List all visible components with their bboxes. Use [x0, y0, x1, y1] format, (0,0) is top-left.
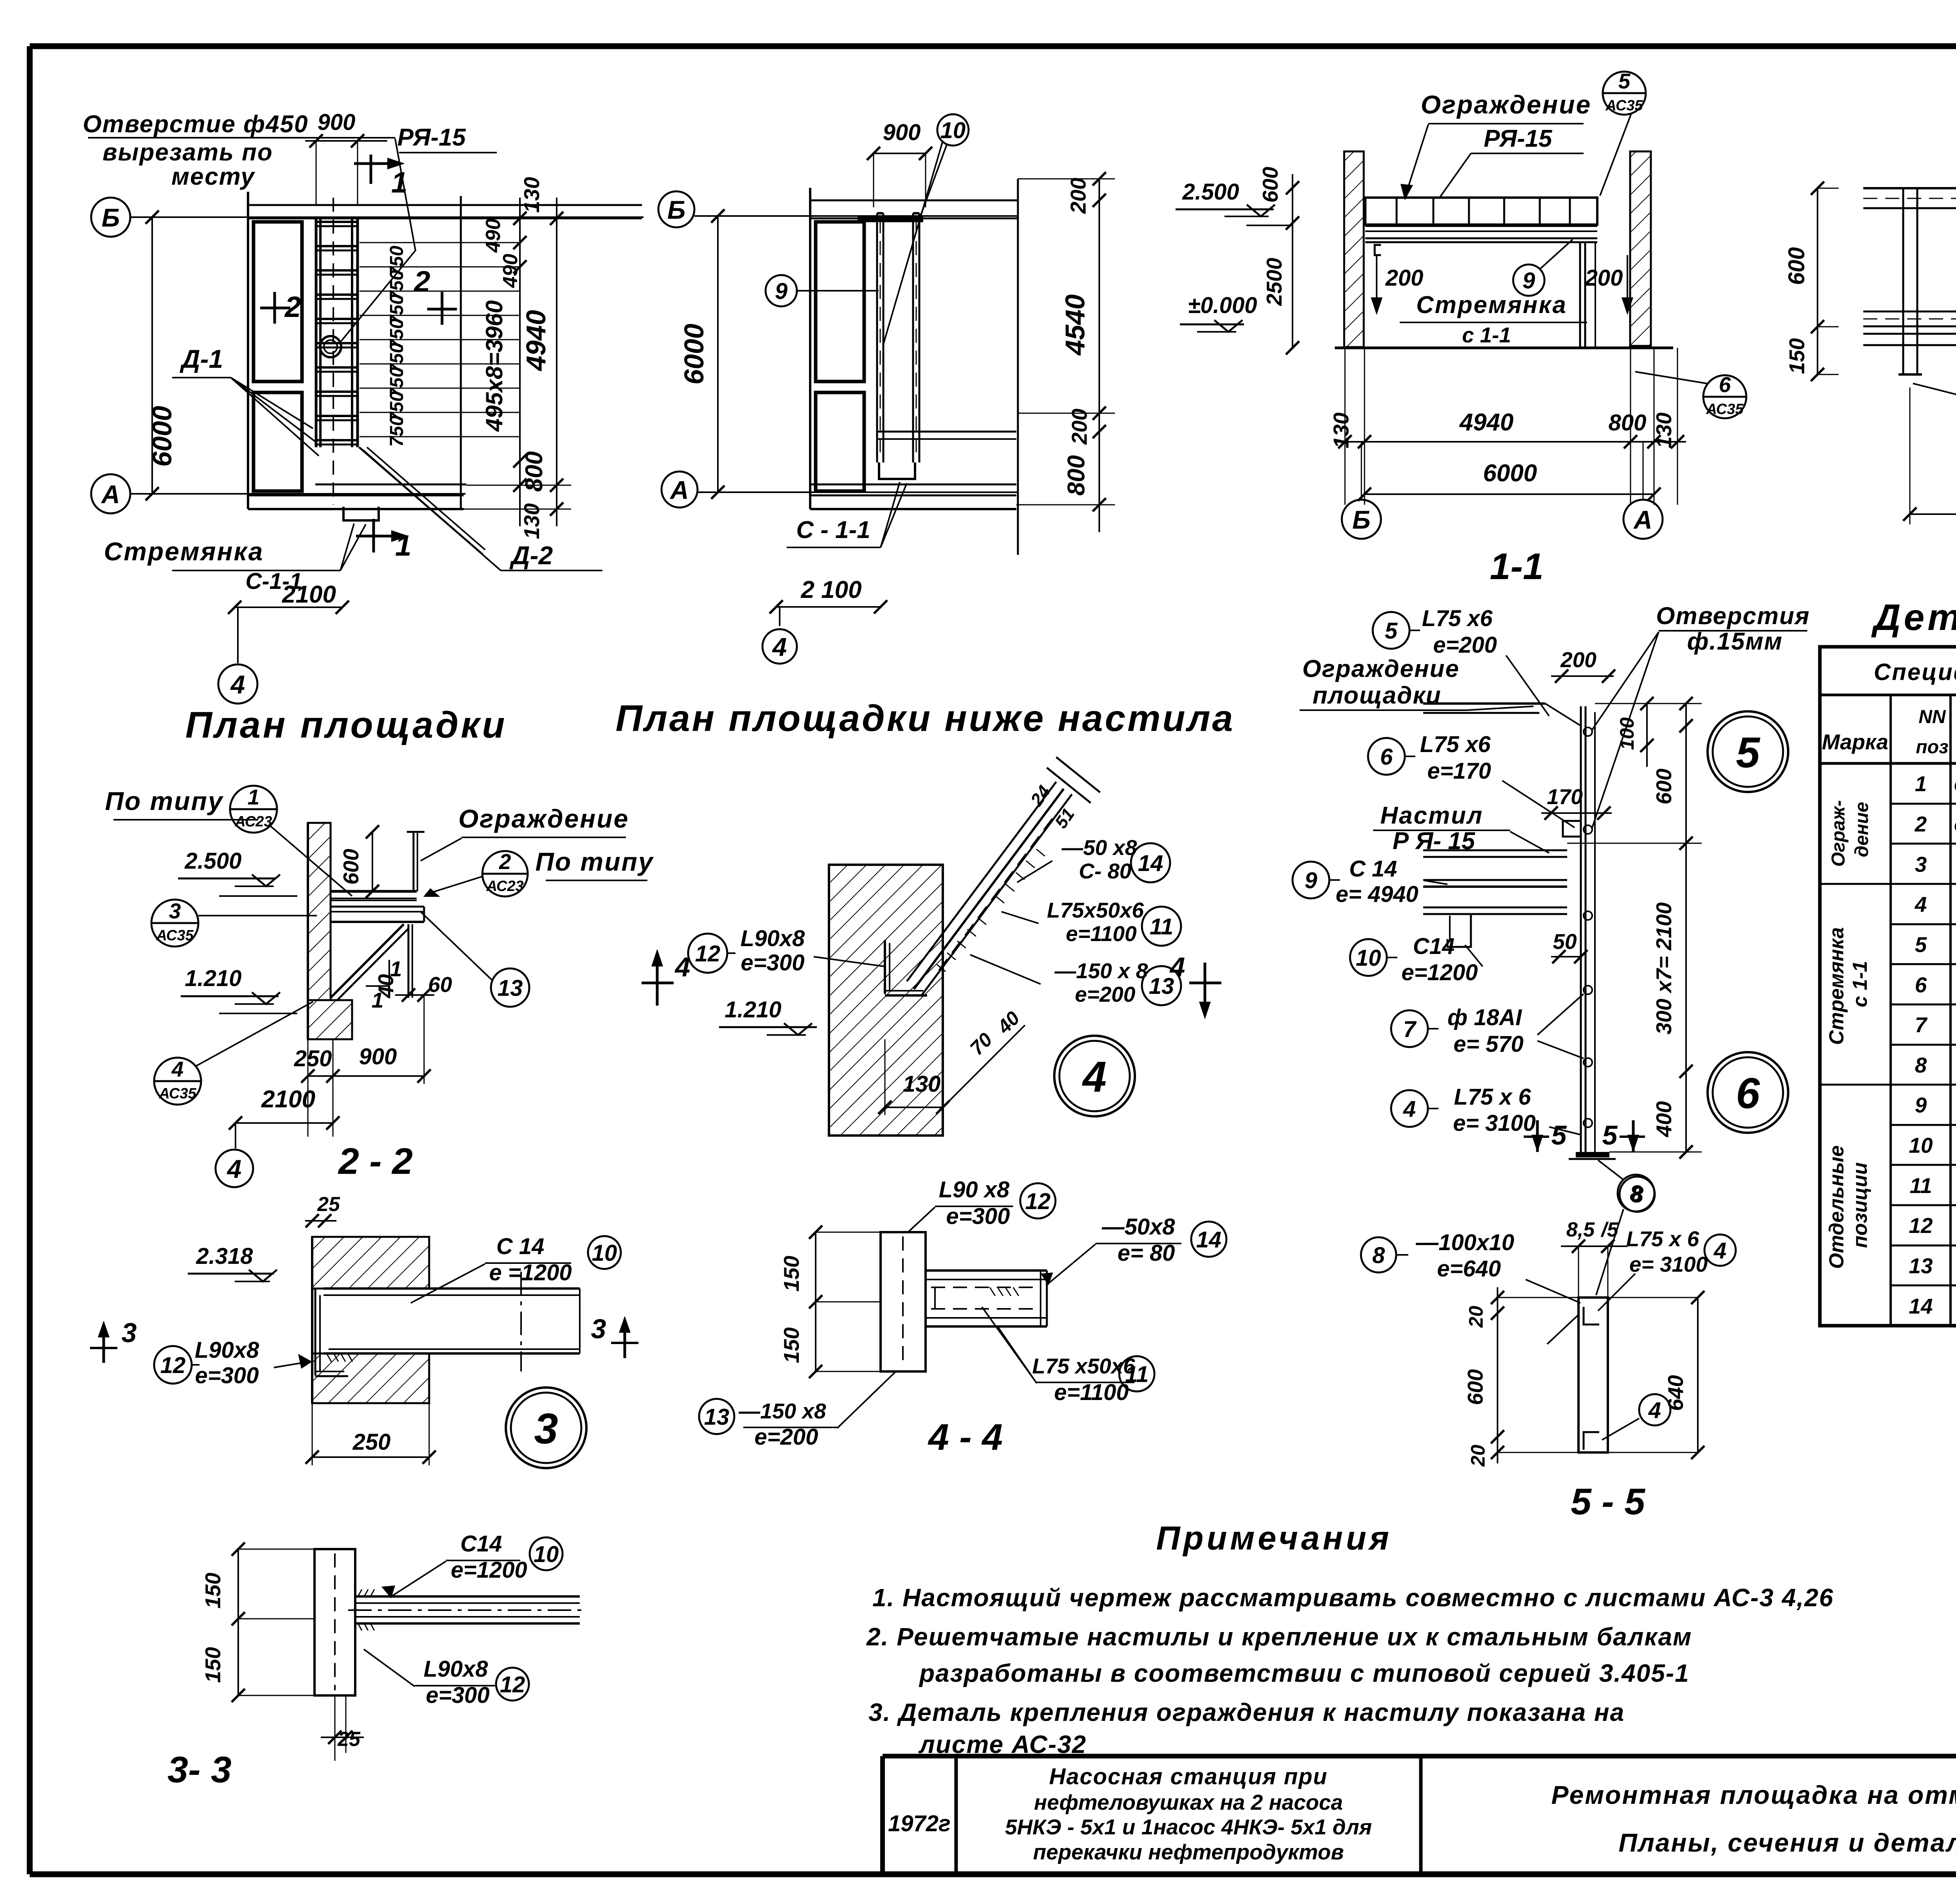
svg-text:e=170: e=170 [1427, 758, 1491, 784]
section 3-3: plate [315, 1549, 355, 1695]
stremyanka: bottom plate pos 8 [1576, 1152, 1609, 1157]
stremyanka: bracket pos 6 [1563, 821, 1581, 837]
svg-text:10: 10 [940, 118, 966, 143]
svg-text:1: 1 [248, 785, 260, 809]
svg-text:6000: 6000 [147, 406, 177, 467]
svg-text:Отверстия: Отверстия [1656, 603, 1810, 630]
svg-text:900: 900 [883, 120, 921, 145]
detail 4: weld ticks [937, 965, 946, 972]
svg-text:10: 10 [1356, 945, 1381, 971]
svg-text:e= 4940: e= 4940 [1336, 882, 1418, 907]
svg-text:5: 5 [1915, 932, 1927, 957]
svg-text:14: 14 [1196, 1227, 1222, 1253]
svg-text:2: 2 [1915, 812, 1927, 836]
plan 1: section mark 2 left [273, 292, 276, 324]
svg-text:Ограждение: Ограждение [1302, 655, 1460, 682]
svg-text:250: 250 [352, 1429, 391, 1455]
svg-text:Б: Б [1352, 505, 1371, 534]
svg-text:6000: 6000 [1483, 460, 1537, 487]
section 1-1: left dims 600 2500 [1292, 174, 1293, 348]
svg-text:8: 8 [1372, 1243, 1385, 1268]
plan 2: wall block lower [816, 392, 864, 491]
plan 2: bottom bracket [879, 463, 915, 479]
section 2-2: deck beam [331, 906, 424, 908]
section 5-5: pos 8 top circle [1620, 1177, 1655, 1212]
svg-text:12: 12 [160, 1353, 186, 1378]
section 2-2: ref circle 4 AC35 [154, 1058, 201, 1105]
svg-text:L90 х8: L90 х8 [939, 1177, 1010, 1202]
svg-text:6000: 6000 [679, 324, 709, 385]
svg-text:14: 14 [1138, 851, 1163, 876]
svg-text:3. Деталь крепления огражде: 3. Деталь крепления ограждения к настилу… [868, 1698, 1625, 1726]
plan 2: pos circle 9 [766, 275, 797, 306]
svg-text:4: 4 [1403, 1096, 1416, 1122]
svg-text:e=300: e=300 [741, 950, 805, 975]
svg-text:2.500: 2.500 [184, 848, 241, 874]
svg-text:e= 3100: e= 3100 [1453, 1110, 1535, 1136]
plan 2: wall lines [809, 188, 811, 509]
svg-text:300 х7= 2100: 300 х7= 2100 [1652, 902, 1676, 1035]
svg-text:С- 80: С- 80 [1079, 859, 1132, 883]
plan 2: pos circle 10 [937, 114, 969, 146]
svg-text:40: 40 [993, 1007, 1024, 1038]
svg-text:Примечания: Примечания [1156, 1520, 1392, 1557]
svg-text:1: 1 [391, 166, 408, 199]
svg-text:±0.000: ±0.000 [1188, 293, 1257, 318]
svg-text:4: 4 [227, 1154, 242, 1183]
svg-text:L90х8: L90х8 [741, 926, 805, 951]
svg-text:1-1: 1-1 [1490, 546, 1543, 587]
section 3: weld marks [327, 1353, 331, 1362]
svg-text:дение: дение [1852, 802, 1872, 857]
svg-text:4: 4 [1169, 952, 1185, 982]
svg-text:12: 12 [695, 941, 721, 966]
section 2-2: circle 4 axis [216, 1150, 253, 1187]
svg-text:перекачки нефтепродуктов: перекачки нефтепродуктов [1033, 1840, 1344, 1864]
svg-text:150: 150 [201, 1647, 225, 1683]
plan 1: circle 4 bottom [218, 664, 257, 704]
svg-text:ф 18АI: ф 18АI [1447, 1005, 1523, 1030]
detail 4: dashed bolt line [939, 819, 1052, 970]
plan 2: right dim line [1098, 179, 1100, 532]
section 5-5: pos 8 label [1361, 1237, 1396, 1272]
svg-text:6: 6 [1719, 373, 1731, 397]
section 1-1: pos circle 9 [1513, 265, 1544, 296]
svg-text:150: 150 [779, 1327, 804, 1363]
svg-text:200: 200 [1067, 409, 1091, 445]
svg-text:5: 5 [1602, 1120, 1618, 1150]
detail 4: diagonal end plate pos 14 [1047, 768, 1091, 803]
section 3-3: weld marks [358, 1589, 362, 1596]
stremyanka: right dims [1646, 704, 1648, 767]
svg-text:800: 800 [521, 451, 548, 491]
stremyanka: pos circle 10 label [1350, 939, 1387, 976]
svg-text:13: 13 [1909, 1254, 1933, 1278]
section 3: angle pos 12 [315, 1289, 316, 1375]
section 3: big circle 3 [506, 1388, 586, 1468]
section 1-1: ref circle 5 AC35 [1603, 72, 1646, 115]
svg-text:10: 10 [592, 1240, 617, 1266]
svg-text:3: 3 [169, 899, 181, 923]
plan 1: diagonal brace D-2 [359, 447, 483, 554]
svg-text:900: 900 [318, 110, 356, 135]
svg-text:месту: месту [171, 163, 255, 190]
svg-text:L90х8: L90х8 [195, 1337, 259, 1363]
stremyanka: deck [1423, 849, 1567, 851]
plan 1: dim 6000 [151, 217, 153, 494]
section 3: section marks 3 [102, 1334, 105, 1363]
svg-text:12: 12 [500, 1672, 525, 1697]
svg-text:1. Настоящий чертеж рассматр: 1. Настоящий чертеж рассматривать совмес… [872, 1584, 1834, 1612]
railing detail: mid rail [1863, 311, 1956, 313]
plan 1: wall axis A [91, 474, 130, 513]
svg-text:Отверстие ф450: Отверстие ф450 [83, 111, 308, 138]
svg-text:2.500: 2.500 [1182, 179, 1239, 205]
svg-text:2.318: 2.318 [196, 1244, 253, 1269]
svg-text:А: А [1633, 505, 1652, 534]
svg-text:площадки: площадки [1312, 682, 1442, 709]
svg-text:600: 600 [1652, 768, 1676, 804]
svg-text:25: 25 [317, 1193, 340, 1216]
svg-text:4540: 4540 [1060, 294, 1090, 356]
title block: frame [883, 1754, 1956, 1758]
svg-text:5: 5 [1551, 1120, 1567, 1150]
section 2-2: dim 600 [372, 832, 373, 891]
svg-text:600: 600 [1784, 247, 1809, 285]
stremyanka: pos circle 6 label [1368, 738, 1405, 775]
svg-text:900: 900 [359, 1044, 397, 1069]
svg-text:14: 14 [1909, 1294, 1933, 1318]
svg-text:АС35: АС35 [1605, 97, 1643, 114]
svg-text:L90х8: L90х8 [424, 1656, 488, 1682]
svg-text:11: 11 [1909, 1173, 1932, 1198]
plan 1: wall block lower [253, 392, 302, 491]
svg-text:С14: С14 [1413, 934, 1454, 959]
svg-text:8,5: 8,5 [1566, 1218, 1595, 1241]
plan 1: section mark 2 right [441, 292, 444, 325]
section 3: beam C14 [324, 1287, 580, 1290]
svg-text:План площадки: План площадки [185, 704, 507, 746]
railing detail: bottom strip pos 3 [1863, 333, 1956, 335]
svg-text:с 1-1: с 1-1 [1849, 961, 1872, 1008]
section 3-3: dims 150 150 [237, 1549, 239, 1695]
svg-text:11: 11 [1125, 1362, 1149, 1387]
svg-text:План площадки ниже настила: План площадки ниже настила [616, 698, 1235, 739]
svg-text:5: 5 [1736, 729, 1760, 777]
svg-text:200: 200 [1385, 265, 1424, 291]
svg-text:4: 4 [1713, 1238, 1726, 1263]
svg-text:4 - 4: 4 - 4 [928, 1416, 1003, 1458]
svg-text:7: 7 [1403, 1017, 1417, 1042]
svg-text:Б: Б [667, 195, 686, 224]
svg-text:NN: NN [1918, 707, 1946, 727]
svg-text:Насосная станция при: Насосная станция при [1049, 1764, 1328, 1789]
section 3: label L90x8 pos 12 [154, 1346, 192, 1384]
detail 4: section mark 4 right [1204, 963, 1206, 1006]
svg-text:600: 600 [339, 849, 363, 885]
plan 2: beam channels [876, 213, 878, 463]
svg-text:С 14: С 14 [496, 1234, 545, 1259]
section 1-1: ref circle 6 AC35 [1703, 375, 1746, 418]
svg-text:АС23: АС23 [486, 878, 523, 894]
svg-text:4: 4 [1648, 1398, 1661, 1423]
svg-text:2100: 2100 [261, 1086, 315, 1113]
svg-text:600: 600 [1463, 1369, 1487, 1405]
svg-text:позиции: позиции [1849, 1163, 1872, 1248]
svg-text:20: 20 [1467, 1445, 1489, 1467]
svg-text:70: 70 [966, 1028, 997, 1059]
svg-text:8: 8 [1631, 1182, 1644, 1208]
svg-text:150: 150 [779, 1256, 804, 1292]
svg-text:Стремянка: Стремянка [1416, 292, 1567, 319]
section 2-2: bracket diagonal [331, 924, 404, 998]
section 2-2: pos circle 13 [491, 968, 529, 1007]
svg-text:e=200: e=200 [1433, 632, 1497, 658]
stremyanka: stringer [1580, 706, 1582, 1152]
svg-text:750: 750 [387, 416, 407, 447]
svg-text:51: 51 [1051, 804, 1078, 832]
stremyanka: holes [1584, 727, 1592, 736]
plan 1: ladder rungs [316, 221, 358, 223]
svg-text:2 - 2: 2 - 2 [338, 1141, 413, 1182]
svg-text:—100х10: —100х10 [1415, 1230, 1514, 1255]
svg-text:e=1100: e=1100 [1066, 921, 1137, 946]
svg-text:1.210: 1.210 [725, 997, 781, 1022]
svg-text:Б: Б [102, 203, 120, 232]
svg-text:L75 х6: L75 х6 [1420, 732, 1491, 757]
section 1-1: bottom dims [1345, 348, 1346, 505]
svg-text:4940: 4940 [521, 310, 551, 372]
svg-text:Ограждение: Ограждение [1421, 90, 1592, 119]
sheet frame [30, 43, 1956, 49]
svg-text:11: 11 [1150, 914, 1173, 939]
svg-text:РЯ-15: РЯ-15 [1484, 125, 1553, 152]
svg-text:e=1200: e=1200 [1401, 960, 1478, 985]
section 1-1: dims 200 under deck [1376, 255, 1377, 309]
svg-text:1972г: 1972г [888, 1811, 951, 1836]
svg-text:5: 5 [1618, 69, 1631, 93]
svg-text:200: 200 [1560, 648, 1596, 672]
section 1-1: deck panels [1365, 198, 1597, 225]
section 1-1: right wall hatched [1630, 151, 1651, 346]
section 4-4: beam channel [926, 1269, 1047, 1272]
svg-text:3- 3: 3- 3 [167, 1749, 232, 1791]
railing detail: posts pos 2 [1902, 188, 1904, 374]
svg-text:2: 2 [413, 265, 430, 298]
svg-text:Деталь ограждения: Деталь ограждения [1871, 597, 1956, 638]
svg-text:/5: /5 [1600, 1218, 1618, 1241]
detail 4: pos circle 12 label [688, 934, 727, 973]
stremyanka: pos circle 8 [1618, 1175, 1654, 1211]
svg-text:800: 800 [1063, 455, 1090, 495]
svg-text:40: 40 [374, 974, 398, 999]
section 5-5: right dim 640 [1697, 1298, 1699, 1452]
stremyanka: pos circle 9 label [1293, 862, 1329, 898]
plan 1: wall lines [247, 192, 249, 509]
section 2-2: slope triangle [366, 960, 389, 986]
plan 2: right line [1017, 179, 1019, 555]
section 5-5: clip bottom [1584, 1432, 1599, 1450]
svg-text:12: 12 [1909, 1213, 1933, 1238]
svg-text:Д-1: Д-1 [180, 344, 223, 373]
plan 1: ladder stringers [315, 218, 318, 447]
svg-text:С - 1-1: С - 1-1 [796, 516, 870, 543]
svg-text:С14: С14 [460, 1531, 502, 1557]
plan 2: wall block upper [816, 222, 864, 382]
svg-text:4: 4 [1915, 892, 1927, 916]
section 2-2: railing post [413, 832, 415, 891]
svg-text:490: 490 [499, 254, 522, 288]
svg-text:L75х50х6: L75х50х6 [1047, 898, 1144, 922]
svg-text:L75 х 6: L75 х 6 [1454, 1084, 1531, 1110]
svg-text:—150 х8: —150 х8 [738, 1399, 826, 1423]
plan 2: dim 6000 [717, 216, 719, 492]
svg-text:Настил: Настил [1380, 802, 1483, 829]
svg-text:АС23: АС23 [234, 813, 272, 830]
svg-text:—50х8: —50х8 [1101, 1214, 1175, 1240]
plan 1: right structure line [460, 196, 462, 509]
stremyanka: pos circle 5 label [1373, 612, 1409, 649]
section 2-2: ref circle 2 AC23 [482, 851, 528, 896]
svg-text:4: 4 [230, 670, 245, 699]
svg-text:3: 3 [122, 1317, 137, 1348]
svg-text:3: 3 [1915, 852, 1927, 876]
stremyanka: C14 hanger bracket [1447, 914, 1471, 947]
svg-text:e=200: e=200 [1075, 982, 1136, 1006]
svg-text:170: 170 [1547, 785, 1583, 809]
svg-text:600: 600 [1258, 167, 1282, 203]
svg-text:Марка: Марка [1822, 730, 1888, 754]
svg-text:2100: 2100 [282, 581, 336, 608]
svg-text:Планы, сечения и детали: Планы, сечения и детали [1618, 1828, 1956, 1857]
stremyanka: top rail [1423, 702, 1545, 705]
plan 1: wall axis B [91, 198, 130, 237]
svg-text:с 1-1: с 1-1 [1462, 323, 1511, 347]
detail 4: diagonal member pos 11 [914, 789, 1064, 989]
section 5-5: left dims 20 600 20 [1497, 1287, 1498, 1463]
svg-text:4: 4 [674, 952, 690, 982]
svg-text:130: 130 [903, 1071, 941, 1097]
svg-text:9: 9 [1915, 1093, 1927, 1117]
svg-text:C50х40х12х2.5: C50х40х12х2.5 [1954, 817, 1956, 835]
section 1-1: left wall hatched [1344, 151, 1364, 347]
stremyanka: big circle 6 [1708, 1052, 1788, 1133]
svg-text:5НКЭ - 5х1 и 1насос 4НКЭ- 5х1: 5НКЭ - 5х1 и 1насос 4НКЭ- 5х1 для [1005, 1815, 1372, 1839]
section 2-2: deck [331, 890, 417, 893]
svg-text:1: 1 [395, 529, 412, 562]
detail 4: section mark 4 left [656, 963, 659, 1006]
svg-text:e= 3100: e= 3100 [1629, 1252, 1708, 1276]
svg-text:2 100: 2 100 [800, 576, 861, 603]
stremyanka: pos circle 4 label [1391, 1090, 1428, 1127]
svg-text:Ограж-: Ограж- [1828, 800, 1849, 867]
svg-text:По типу: По типу [105, 786, 223, 815]
section 5-5: pos 4 lower circle [1639, 1394, 1670, 1425]
svg-text:Д-2: Д-2 [509, 541, 553, 570]
plan 1: section mark 1 top [370, 155, 372, 184]
spec table: frame [1820, 647, 1956, 1326]
svg-text:C50х40х12х2.5: C50х40х12х2.5 [1954, 776, 1956, 795]
svg-text:3: 3 [591, 1314, 606, 1344]
svg-text:Ограждение: Ограждение [458, 804, 629, 833]
svg-text:250: 250 [294, 1046, 332, 1071]
svg-text:9: 9 [775, 279, 787, 304]
svg-text:e=1100: e=1100 [1054, 1380, 1129, 1405]
railing detail: bottom dims 750 750 [1909, 387, 1911, 524]
svg-text:60: 60 [428, 972, 452, 997]
svg-text:100: 100 [1616, 717, 1638, 750]
plan 2: axis A [662, 472, 698, 507]
svg-text:2. Решетчатые настилы и кре: 2. Решетчатые настилы и крепление их к с… [866, 1623, 1692, 1651]
svg-text:5: 5 [1385, 618, 1398, 644]
spec table: header lines [1820, 762, 1956, 765]
svg-text:4: 4 [171, 1057, 184, 1081]
section 2-2: ref circle 1 AC23 [230, 786, 277, 833]
svg-text:e=300: e=300 [195, 1363, 259, 1388]
detail 4: big circle 4 [1054, 1036, 1135, 1116]
section 2-2: hanger [408, 924, 410, 998]
svg-text:e= 570: e= 570 [1453, 1031, 1523, 1057]
svg-text:АС35: АС35 [1706, 401, 1744, 418]
plan 1: wall block upper [253, 222, 302, 382]
section 1-1: floor line [1335, 347, 1673, 349]
railing detail: top rail pos 1 [1863, 187, 1956, 189]
svg-text:3: 3 [534, 1405, 558, 1453]
spec table: row lines [1891, 803, 1956, 805]
svg-text:800: 800 [1609, 410, 1647, 436]
svg-text:L75 х6: L75 х6 [1422, 606, 1493, 631]
svg-text:1.210: 1.210 [185, 966, 241, 991]
svg-text:20: 20 [1465, 1306, 1487, 1328]
railing detail: left dim [1817, 188, 1818, 374]
svg-text:Ремонтная площадка на отм: Ремонтная площадка на отм 2.500 [1551, 1780, 1956, 1809]
svg-text:А: А [669, 475, 689, 504]
svg-text:АС35: АС35 [156, 927, 194, 944]
svg-text:130: 130 [520, 503, 544, 539]
svg-text:130: 130 [1329, 412, 1353, 448]
svg-text:По типу: По типу [535, 847, 654, 876]
svg-text:130: 130 [520, 177, 544, 213]
section 1-1: axis circles [1342, 500, 1381, 539]
plan 1: section mark 1 bottom [372, 519, 375, 552]
detail 4: wall hatched [829, 865, 943, 1136]
section 5-5: bar [1578, 1298, 1608, 1452]
svg-text:С 14: С 14 [1349, 856, 1397, 882]
section 4-4: dims 150 150 [815, 1232, 816, 1371]
svg-text:495х8=3960: 495х8=3960 [481, 300, 507, 432]
section 1-1: left C bracket [1375, 245, 1381, 255]
plan 1: 750 dim stack [360, 242, 520, 243]
svg-text:5 - 5: 5 - 5 [1571, 1481, 1645, 1522]
detail 4: corner angle pos 12 [884, 940, 886, 994]
svg-text:10: 10 [1909, 1133, 1933, 1157]
plan 1: bottom bracket [343, 507, 379, 520]
section 5-5: clip top [1584, 1307, 1599, 1325]
stremyanka: pos circle 7 label [1391, 1010, 1428, 1047]
plan 1: hole f450 [320, 336, 341, 357]
svg-text:нефтеловушках на 2 насоса: нефтеловушках на 2 насоса [1034, 1790, 1343, 1814]
plan 2: axis B [658, 191, 694, 227]
svg-text:6: 6 [1380, 744, 1393, 770]
svg-text:ф.15мм: ф.15мм [1687, 628, 1783, 655]
svg-text:2500: 2500 [1262, 257, 1286, 306]
section 3: cut line 3-3 [520, 1272, 522, 1371]
plan 1: ladder centerline [333, 198, 334, 505]
svg-text:130: 130 [1652, 412, 1676, 448]
svg-text:9: 9 [1523, 268, 1535, 293]
svg-text:—50 х8: —50 х8 [1061, 835, 1137, 860]
svg-text:Стремянка: Стремянка [1825, 927, 1848, 1045]
